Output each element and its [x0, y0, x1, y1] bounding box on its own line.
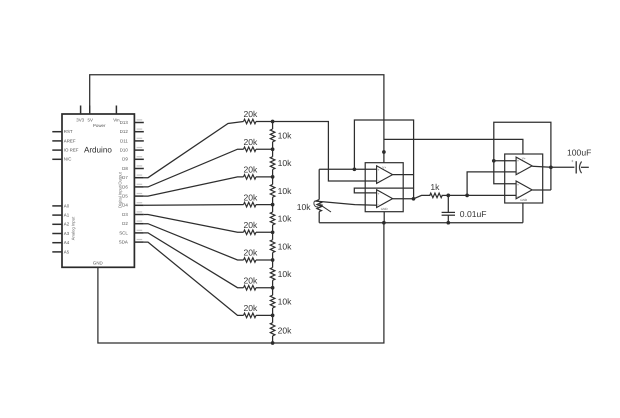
resistor R7 20k	[243, 275, 272, 290]
svg-text:5V: 5V	[88, 118, 93, 123]
svg-text:A0: A0	[64, 203, 70, 208]
wire U2A plus input	[354, 168, 376, 170]
node C1 top	[446, 194, 450, 198]
resistor R11 10k	[270, 184, 292, 197]
node bit4 junction	[271, 230, 275, 234]
node bit2 junction	[271, 286, 275, 290]
op-amp U3	[505, 154, 543, 203]
Arduino D13 pin	[120, 119, 144, 125]
Arduino D9 pin	[122, 156, 144, 162]
svg-text:D10: D10	[120, 148, 129, 153]
wire to U3 node	[448, 194, 467, 196]
svg-text:20k: 20k	[243, 275, 258, 285]
svg-text:GND: GND	[381, 207, 389, 211]
wire rail segment 7	[272, 288, 274, 316]
wire U2 GND pin	[383, 212, 385, 223]
resistor R6 20k	[243, 248, 272, 263]
svg-text:20k: 20k	[243, 303, 258, 313]
wire rail segment 1	[272, 122, 274, 150]
Arduino D7 pin	[122, 175, 144, 181]
svg-text:10k: 10k	[278, 269, 293, 279]
svg-text:IO REF: IO REF	[64, 148, 79, 153]
wire output stub	[581, 166, 589, 168]
Arduino SCL pin	[119, 230, 144, 236]
svg-text:V+: V+	[522, 157, 526, 161]
capacitor C2 100uF	[567, 148, 591, 174]
svg-text:20k: 20k	[243, 220, 258, 230]
Arduino A4 pin	[52, 240, 69, 245]
Arduino A0 pin	[52, 203, 69, 208]
resistor R16 20k bottom	[270, 323, 292, 336]
Arduino D12 pin	[120, 129, 144, 135]
wire Arduino GND to ground rail	[98, 223, 384, 343]
wire U2A input to pot top	[319, 169, 354, 199]
Arduino D3 pin	[122, 211, 144, 217]
svg-text:GND: GND	[520, 198, 528, 202]
wire rail segment 2	[272, 149, 274, 177]
wire U2 output to R18	[414, 195, 431, 198]
resistor R12 10k	[270, 212, 292, 225]
resistor R18 1k	[430, 182, 442, 198]
svg-text:−: −	[378, 203, 380, 207]
wire pot wiper to U2B input	[315, 201, 378, 205]
svg-text:D9: D9	[122, 157, 128, 162]
wire U2B output	[393, 198, 414, 200]
svg-text:AREF: AREF	[64, 138, 76, 143]
svg-text:10k: 10k	[278, 241, 293, 251]
Arduino RST pin	[52, 129, 73, 134]
Arduino Vin pin	[113, 106, 120, 123]
svg-text:20k: 20k	[243, 248, 258, 258]
resistor R1 20k	[243, 109, 272, 124]
wire Arduino pin to R2R bit 2	[144, 233, 244, 288]
svg-text:10k: 10k	[278, 297, 293, 307]
svg-text:Analog Input: Analog Input	[71, 216, 76, 240]
op-amp U2	[365, 163, 403, 212]
wire U3A input up	[467, 172, 516, 196]
svg-text:−: −	[517, 194, 519, 198]
svg-text:20k: 20k	[278, 326, 293, 336]
svg-text:20k: 20k	[243, 192, 258, 202]
svg-text:20k: 20k	[243, 109, 258, 119]
Arduino D11 pin	[120, 138, 144, 144]
Arduino AREF pin	[52, 138, 76, 143]
node ladder ground junction	[271, 341, 275, 345]
node bit8 junction	[271, 120, 275, 124]
wire U2B feedback hairpin	[354, 188, 413, 193]
svg-text:0.01uF: 0.01uF	[460, 209, 487, 219]
wire rail segment 6	[272, 260, 274, 288]
svg-text:RST: RST	[64, 129, 73, 134]
wire U3A plus input	[494, 160, 516, 162]
svg-text:1k: 1k	[430, 182, 440, 192]
wire Arduino pin to R2R bit 7	[144, 149, 244, 187]
svg-text:D12: D12	[120, 129, 129, 134]
svg-text:100uF: 100uF	[567, 148, 591, 158]
svg-text:SDA: SDA	[119, 240, 128, 245]
resistor R5 20k	[243, 220, 272, 235]
Arduino 3V3 pin	[76, 106, 84, 123]
svg-text:10k: 10k	[278, 214, 293, 224]
svg-text:+: +	[517, 159, 519, 163]
svg-text:+: +	[378, 192, 380, 196]
wire rail segment 4	[272, 205, 274, 233]
svg-text:+: +	[517, 183, 519, 187]
wire U2A output	[393, 174, 414, 176]
Arduino D6 pin	[122, 184, 144, 190]
node U3 output junction	[549, 165, 553, 169]
svg-text:D5: D5	[122, 194, 128, 199]
svg-text:Power: Power	[93, 123, 106, 128]
resistor R9 10k	[270, 129, 292, 142]
resistor R3 20k	[243, 165, 272, 180]
svg-text:GND: GND	[93, 260, 103, 265]
node bit1 junction	[271, 314, 275, 318]
resistor R4 20k	[243, 192, 272, 207]
node U3 input junction	[465, 194, 469, 198]
wire 5V rail top	[90, 75, 384, 163]
node bit5 junction	[271, 203, 275, 207]
wire U3A output	[532, 166, 551, 167]
wire pot bottom to ground rail	[318, 212, 320, 223]
svg-text:A4: A4	[64, 240, 70, 245]
resistor R8 20k	[243, 303, 272, 318]
Arduino D4 pin	[122, 202, 144, 208]
svg-text:D8: D8	[122, 166, 128, 171]
wire U3B output	[532, 189, 551, 191]
Arduino A1 pin	[52, 213, 69, 218]
wire U3B minus input	[494, 161, 516, 184]
resistor R10 10k	[270, 157, 292, 170]
potentiometer R17 10k	[297, 200, 331, 213]
resistor R14 10k	[270, 268, 292, 281]
wire Arduino pin to R2R bit 6	[144, 177, 244, 196]
Arduino A2 pin	[52, 222, 69, 227]
svg-text:−: −	[517, 171, 519, 175]
resistor R2 20k	[243, 137, 272, 152]
Arduino D8 pin	[122, 165, 144, 171]
svg-text:A3: A3	[64, 231, 70, 236]
wire U3 GND pin	[522, 203, 524, 223]
svg-text:D2: D2	[122, 221, 128, 226]
svg-text:3V3: 3V3	[76, 118, 84, 123]
capacitor C1 0.01uF	[442, 195, 487, 222]
svg-text:D13: D13	[120, 120, 129, 125]
svg-text:A1: A1	[64, 213, 70, 218]
svg-text:V+: V+	[382, 165, 386, 169]
node U2 output junction	[412, 197, 416, 201]
wire Arduino pin to R2R bit 3	[144, 224, 244, 260]
wire U3 output to C2	[551, 166, 575, 168]
svg-text:SCL: SCL	[119, 230, 128, 235]
Arduino D2 pin	[122, 221, 144, 227]
wire R18 to C1 node	[442, 194, 449, 196]
resistor R15 10k	[270, 295, 292, 308]
svg-text:20k: 20k	[243, 137, 258, 147]
wire rail segment 3	[272, 177, 274, 205]
Arduino A3 pin	[52, 231, 69, 236]
node bit6 junction	[271, 175, 275, 179]
Arduino IO REF pin	[52, 148, 78, 153]
svg-text:10k: 10k	[278, 158, 293, 168]
svg-text:D11: D11	[120, 138, 128, 143]
svg-text:N/C: N/C	[64, 157, 72, 162]
resistor R13 10k	[270, 240, 292, 253]
wire Arduino pin to R2R bit 4	[144, 215, 244, 233]
wire to U3B plus input	[467, 194, 516, 196]
wire rail bottom segment	[272, 315, 274, 343]
Arduino N/C pin	[52, 157, 71, 162]
node U2 GND junction	[382, 221, 386, 225]
node 5V at U2 V+	[382, 150, 386, 154]
svg-text:−: −	[378, 179, 380, 183]
svg-text:A2: A2	[64, 222, 70, 227]
Arduino SDA pin	[119, 239, 144, 245]
svg-text:20k: 20k	[243, 165, 258, 175]
wire DAC out to U2 input	[273, 122, 377, 182]
svg-text:10k: 10k	[278, 186, 293, 196]
Arduino D10 pin	[120, 147, 144, 153]
wire rail segment 5	[272, 232, 274, 260]
Arduino D5 pin	[122, 193, 144, 199]
svg-text:A5: A5	[64, 249, 70, 254]
svg-text:D3: D3	[122, 212, 128, 217]
wire Arduino pin to R2R bit 1	[144, 242, 244, 315]
svg-text:+: +	[571, 159, 574, 164]
svg-text:D7: D7	[122, 175, 128, 180]
Arduino 5V pin	[88, 106, 93, 123]
node U3A plus input	[492, 159, 496, 163]
wire analog ground rail	[319, 222, 523, 224]
wire Arduino pin to R2R bit 8	[144, 122, 244, 178]
svg-text:D6: D6	[122, 184, 128, 189]
wire U2A feedback loop	[354, 120, 413, 199]
Arduino U1 body	[62, 114, 134, 267]
wire Arduino pin to R2R bit 5	[144, 204, 244, 207]
svg-text:+: +	[378, 168, 380, 172]
Arduino A5 pin	[52, 249, 69, 254]
node bit3 junction	[271, 258, 275, 262]
svg-text:10k: 10k	[278, 130, 293, 140]
svg-text:D4: D4	[122, 203, 128, 208]
svg-text:10k: 10k	[297, 202, 312, 212]
node C1 ground	[446, 221, 450, 225]
svg-text:Arduino: Arduino	[84, 145, 112, 154]
wire U3A feedback loop	[494, 122, 551, 190]
wire 5V to U3 V+	[384, 139, 523, 154]
node bit7 junction	[271, 147, 275, 151]
node U2A plus input	[353, 167, 357, 171]
